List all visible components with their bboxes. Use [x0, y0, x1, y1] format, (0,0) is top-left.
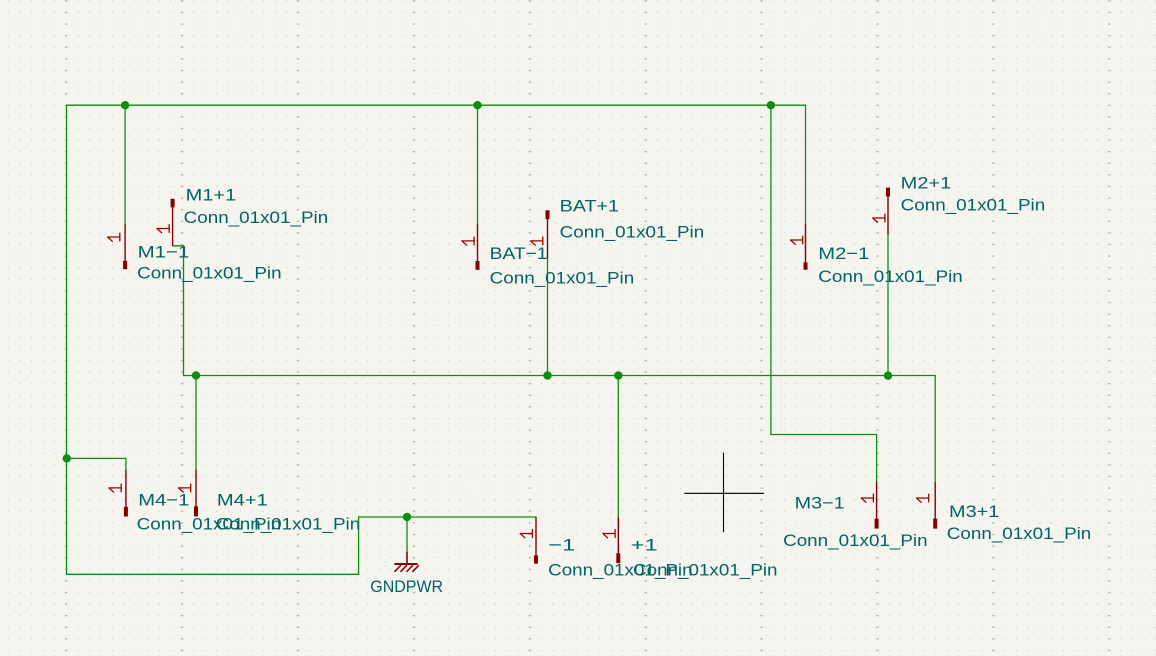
wire mid bus: [184, 375, 936, 377]
wire bottom-right riser: [358, 517, 360, 574]
pin M3-1: [876, 482, 878, 519]
wire M4+1 drop: [195, 376, 197, 470]
pin number 1 M2-1: [791, 236, 803, 244]
svg-text:M3+1: M3+1: [949, 502, 999, 521]
svg-text:Conn_01x01_Pin: Conn_01x01_Pin: [818, 267, 963, 286]
junction mid M4: [192, 371, 200, 379]
pin M2-1: [805, 224, 807, 262]
pin number 1 M1-1: [108, 233, 120, 241]
pin BAT-1: [477, 224, 479, 261]
junction mid +1: [614, 371, 622, 379]
svg-text:Conn_01x01_Pin: Conn_01x01_Pin: [560, 223, 705, 242]
pin M4+1: [195, 470, 197, 507]
wire gnd stub: [406, 517, 408, 552]
cursor crosshair: [684, 453, 764, 533]
svg-text:Conn_01x01_Pin: Conn_01x01_Pin: [184, 208, 329, 227]
svg-text:M2+1: M2+1: [901, 173, 952, 192]
svg-text:−1: −1: [548, 536, 575, 555]
svg-text:Conn_01x01_Pin: Conn_01x01_Pin: [901, 196, 1045, 215]
wire gnd horizontal: [359, 516, 536, 518]
svg-text:+1: +1: [631, 536, 658, 555]
pin number 1 M4+1: [179, 484, 191, 492]
pin number 1 -1: [520, 530, 532, 538]
junction top M1: [121, 101, 129, 109]
pin number 1 M4-1: [109, 484, 121, 492]
pin number 1 M3+1: [917, 494, 929, 502]
pin M4-1: [125, 470, 127, 507]
svg-text:Conn_01x01_Pin: Conn_01x01_Pin: [633, 561, 778, 580]
wire M2-1 drop: [805, 105, 807, 224]
wire M1+1 jog: [173, 246, 184, 376]
wire BAT+1 drop: [547, 258, 549, 376]
pin M1-1: [124, 224, 126, 261]
svg-text:M3−1: M3−1: [795, 494, 845, 513]
pin +1: [617, 517, 619, 553]
svg-text:Conn_01x01_Pin: Conn_01x01_Pin: [783, 531, 928, 550]
wire M1-1 drop: [124, 105, 126, 224]
svg-text:M1−1: M1−1: [138, 243, 190, 262]
junction mid BAT: [543, 371, 551, 379]
svg-text:Conn_01x01_Pin: Conn_01x01_Pin: [490, 268, 635, 287]
wire bottom horizontal: [67, 573, 359, 575]
wire M3-1 path: [771, 105, 877, 482]
pin number 1 BAT-1: [462, 237, 474, 245]
wire BAT-1 drop: [477, 105, 479, 224]
wire M2+1 drop: [887, 235, 889, 376]
junction top BAT: [473, 101, 481, 109]
svg-text:M1+1: M1+1: [186, 185, 237, 204]
wire +1 drop: [617, 376, 619, 518]
junction gnd: [403, 513, 411, 521]
pin number 1 M2+1: [873, 214, 885, 222]
pin number 1 BAT+1: [531, 237, 543, 245]
pin -1: [535, 517, 537, 555]
pin number 1 M1+1: [157, 225, 169, 233]
svg-text:Conn_01x01_Pin: Conn_01x01_Pin: [947, 524, 1092, 543]
wire left vertical: [66, 105, 68, 574]
wire M3+1 drop: [934, 376, 936, 482]
svg-text:BAT−1: BAT−1: [490, 244, 548, 263]
svg-text:M4−1: M4−1: [138, 490, 189, 509]
svg-text:GNDPWR: GNDPWR: [370, 577, 443, 596]
pin M2+1: [887, 197, 889, 235]
junction mid M2: [884, 372, 892, 380]
pin BAT+1: [547, 219, 549, 258]
svg-text:M4+1: M4+1: [217, 490, 268, 509]
svg-text:BAT+1: BAT+1: [560, 197, 619, 216]
junction left M4: [63, 454, 71, 462]
svg-text:M2−1: M2−1: [818, 244, 869, 263]
svg-text:Conn_01x01_Pin: Conn_01x01_Pin: [137, 264, 282, 283]
pin M3+1: [934, 482, 936, 519]
power symbol GNDPWR: [394, 552, 419, 572]
wire M4-1 jog: [67, 458, 126, 470]
pin M1+1: [172, 207, 174, 245]
junction top M2: [767, 101, 775, 109]
svg-text:Conn_01x01_Pin: Conn_01x01_Pin: [216, 515, 361, 534]
pin number 1 +1: [603, 530, 615, 538]
wire top bus: [67, 104, 806, 106]
pin number 1 M3-1: [861, 494, 873, 502]
